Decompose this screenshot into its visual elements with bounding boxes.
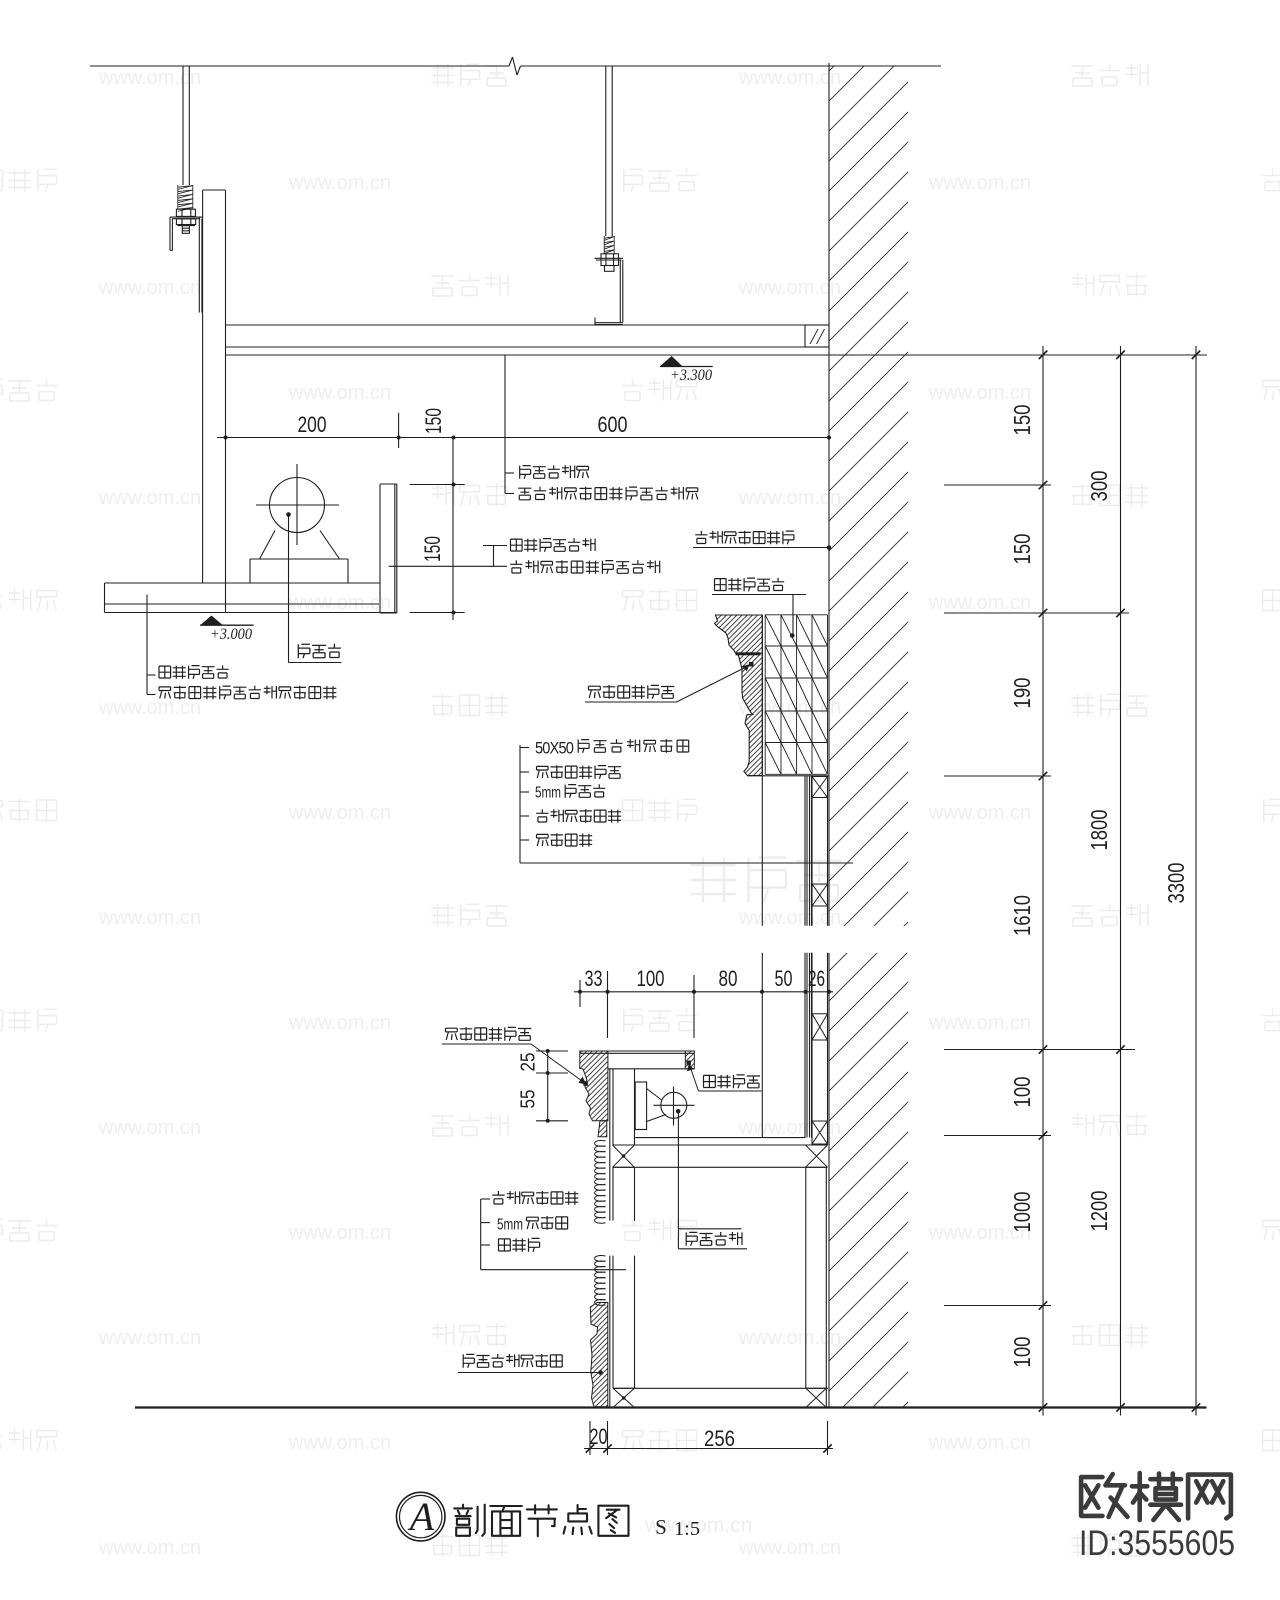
svg-text:www.om.cn: www.om.cn (288, 172, 391, 194)
svg-text:www.om.cn: www.om.cn (738, 907, 841, 929)
svg-text:www.om.cn: www.om.cn (288, 1012, 391, 1034)
svg-text:+3.000: +3.000 (210, 626, 252, 643)
svg-text:www.om.cn: www.om.cn (288, 802, 391, 824)
svg-text:55: 55 (518, 1090, 540, 1109)
svg-text:www.om.cn: www.om.cn (98, 907, 201, 929)
svg-text:+3.300: +3.300 (670, 367, 712, 384)
svg-text:150: 150 (420, 536, 445, 562)
svg-text:1000: 1000 (1009, 1192, 1035, 1233)
svg-text:33: 33 (585, 966, 603, 991)
svg-text:150: 150 (1009, 405, 1035, 436)
svg-text:256: 256 (704, 1426, 735, 1451)
svg-text:www.om.cn: www.om.cn (288, 1432, 391, 1454)
svg-text:3300: 3300 (1163, 863, 1189, 904)
svg-text:190: 190 (1009, 678, 1035, 709)
svg-text:100: 100 (637, 966, 665, 991)
svg-text:1:5: 1:5 (674, 1518, 700, 1540)
svg-text:ID:3555605: ID:3555605 (1079, 1524, 1235, 1563)
svg-text:www.om.cn: www.om.cn (98, 67, 201, 89)
svg-text:www.om.cn: www.om.cn (288, 1222, 391, 1244)
svg-text:S: S (655, 1515, 667, 1539)
svg-text:300: 300 (1086, 471, 1112, 502)
svg-text:www.om.cn: www.om.cn (738, 1327, 841, 1349)
svg-text:www.om.cn: www.om.cn (98, 1537, 201, 1559)
svg-text:www.om.cn: www.om.cn (98, 1117, 201, 1139)
svg-text:www.om.cn: www.om.cn (738, 277, 841, 299)
svg-text:www.om.cn: www.om.cn (738, 67, 841, 89)
svg-text:www.om.cn: www.om.cn (98, 487, 201, 509)
svg-text:600: 600 (598, 412, 628, 437)
svg-text:www.om.cn: www.om.cn (928, 172, 1031, 194)
svg-text:1200: 1200 (1086, 1191, 1112, 1232)
svg-text:www.om.cn: www.om.cn (98, 277, 201, 299)
svg-text:150: 150 (421, 408, 446, 434)
svg-text:www.om.cn: www.om.cn (738, 1117, 841, 1139)
svg-text:A: A (407, 1494, 435, 1539)
svg-text:www.om.cn: www.om.cn (928, 1432, 1031, 1454)
svg-text:1610: 1610 (1009, 895, 1035, 936)
svg-text:50: 50 (775, 966, 793, 991)
svg-text:1800: 1800 (1086, 810, 1112, 851)
svg-text:www.om.cn: www.om.cn (928, 1012, 1031, 1034)
svg-text:20: 20 (590, 1424, 608, 1449)
svg-text:www.om.cn: www.om.cn (288, 382, 391, 404)
svg-text:26: 26 (808, 966, 825, 991)
svg-text:www.om.cn: www.om.cn (928, 592, 1031, 614)
svg-text:www.om.cn: www.om.cn (98, 697, 201, 719)
svg-text:25: 25 (518, 1053, 540, 1072)
svg-text:5mm: 5mm (497, 1217, 523, 1234)
svg-text:150: 150 (1009, 534, 1035, 565)
svg-text:www.om.cn: www.om.cn (288, 592, 391, 614)
svg-text:www.om.cn: www.om.cn (98, 1327, 201, 1349)
svg-text:100: 100 (1009, 1337, 1035, 1368)
svg-text:5mm: 5mm (535, 785, 561, 802)
svg-text:www.om.cn: www.om.cn (928, 802, 1031, 824)
svg-text:200: 200 (298, 412, 327, 437)
svg-text:80: 80 (719, 966, 738, 991)
svg-text:www.om.cn: www.om.cn (738, 1537, 841, 1559)
svg-text:50X50: 50X50 (535, 739, 573, 758)
svg-text:www.om.cn: www.om.cn (928, 382, 1031, 404)
svg-text:100: 100 (1009, 1077, 1035, 1108)
svg-text:www.om.cn: www.om.cn (738, 487, 841, 509)
